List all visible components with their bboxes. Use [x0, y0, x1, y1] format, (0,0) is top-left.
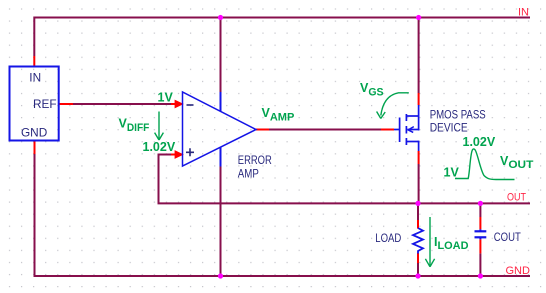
pin arrow into op-amp plus input — [171, 150, 184, 159]
channel segment middle — [405, 126, 407, 134]
junction dot op-amp supply / IN rail — [218, 15, 223, 20]
channel segment bottom — [405, 138, 407, 145]
junction dot op-amp V- / GND rail — [218, 273, 223, 278]
op-amp V- power pin — [220, 148, 222, 167]
svg-text:DEVICE: DEVICE — [430, 121, 468, 135]
annotation VGS curved arrow — [377, 93, 409, 119]
transistor Q1 PMOS pass device — [394, 105, 419, 151]
pin stub REF (box right pin) — [59, 103, 73, 105]
gate lead — [394, 129, 400, 131]
resistor R1 LOAD zigzag — [413, 228, 423, 254]
wire OUT rail to COUT — [479, 203, 481, 217]
junction dot LOAD / GND rail — [415, 273, 420, 278]
wire OUT rail to LOAD resistor — [417, 203, 419, 220]
wire COUT to GND rail — [479, 253, 481, 276]
svg-text:1V: 1V — [444, 166, 460, 180]
wire REF to op-amp minus input — [73, 103, 175, 105]
wire op-amp V- pin down to GND rail — [220, 167, 222, 277]
wire PMOS drain down to OUT rail — [418, 164, 420, 203]
annotation ILOAD down arrow — [425, 217, 434, 267]
gate bar — [399, 118, 401, 143]
drain lead — [406, 141, 418, 143]
wire op-amp V+ pin to IN rail — [220, 18, 222, 93]
pin stub PMOS drain — [418, 151, 420, 164]
op-amp U2 (error amp) triangle — [183, 92, 257, 166]
pin stub PMOS gate — [381, 129, 394, 131]
pin stub op-amp output — [256, 129, 269, 131]
annotation VDIFF down arrow — [155, 112, 164, 141]
pin arrow into op-amp minus input — [171, 100, 184, 109]
wire LOAD resistor to GND rail — [417, 263, 419, 276]
wire IN rail (top) — [34, 17, 530, 19]
svg-text:1.02V: 1.02V — [143, 140, 176, 154]
wire GND drop from box bottom pin to GND rail — [34, 154, 36, 276]
svg-text:AMP: AMP — [238, 167, 259, 181]
regulator reference box U1 — [10, 67, 59, 141]
wire GND rail (bottom) — [34, 275, 531, 277]
pin stub PMOS source — [418, 93, 420, 105]
svg-text:GND: GND — [21, 126, 47, 140]
pin stub box GND bottom pin — [34, 141, 36, 154]
op-amp plus sign — [186, 148, 194, 156]
svg-text:ERROR: ERROR — [238, 153, 272, 167]
svg-text:REF: REF — [33, 97, 57, 111]
pin stub LOAD bottom — [417, 253, 419, 263]
svg-text:LOAD: LOAD — [375, 231, 401, 245]
source lead — [406, 115, 418, 117]
wire OUT rail with feedback riser to op-amp plus input — [159, 155, 531, 204]
channel segment top — [405, 114, 407, 121]
pin stub box IN top pin — [33, 56, 35, 67]
svg-text:1.02V: 1.02V — [463, 135, 496, 149]
svg-text:IN: IN — [518, 7, 529, 19]
annotation VOUT transient waveform — [455, 149, 515, 180]
pin stub COUT bottom — [479, 239, 481, 253]
drain vertical — [418, 142, 419, 152]
svg-text:OUT: OUT — [507, 192, 526, 204]
svg-text:1V: 1V — [158, 91, 174, 105]
op-amp minus sign — [187, 104, 194, 106]
pin stub COUT top — [479, 217, 481, 229]
svg-text:IN: IN — [29, 71, 41, 85]
wire left drop from IN rail to regulator box top pin — [33, 17, 35, 57]
pin stub LOAD top — [417, 220, 419, 229]
junction dot PMOS source / IN rail — [416, 15, 421, 20]
svg-text:COUT: COUT — [494, 230, 521, 244]
capacitor C1 COUT — [475, 229, 487, 239]
junction dot COUT / OUT rail — [478, 201, 483, 206]
junction dot COUT / GND rail — [478, 273, 483, 278]
op-amp V+ power pin — [220, 92, 222, 111]
source vertical — [418, 105, 420, 131]
svg-text:PMOS PASS: PMOS PASS — [430, 108, 486, 122]
svg-text:GND: GND — [506, 265, 531, 277]
wire IN rail down to PMOS source — [418, 18, 420, 94]
junction dot PMOS drain / OUT rail — [415, 201, 420, 206]
wire op-amp output to PMOS gate — [269, 129, 381, 131]
bulk lead with arrow — [407, 129, 418, 131]
